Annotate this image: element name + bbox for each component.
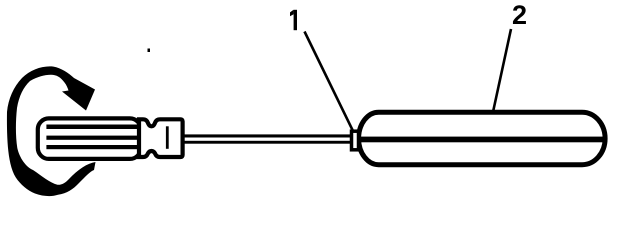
- label 1 (digit drawn as shapes): [294, 10, 297, 30]
- svg-text:2: 2: [512, 0, 527, 30]
- neck and collar: [139, 119, 183, 157]
- rotation arrow (arc + head), single filled path: [7, 66, 96, 196]
- tip insert: [352, 131, 359, 150]
- stray dot: [148, 49, 151, 53]
- handle grip line 1: [46, 125, 138, 130]
- handle grip line 3: [46, 145, 138, 149]
- capsule center line: [360, 137, 603, 143]
- leader line 1: [305, 32, 354, 132]
- leader line 2: [493, 29, 511, 112]
- handle grip line 2: [46, 136, 138, 140]
- handle body: [38, 118, 141, 158]
- shaft: [180, 134, 353, 137]
- capsule body: [359, 112, 605, 165]
- collar inner line: [166, 126, 169, 149]
